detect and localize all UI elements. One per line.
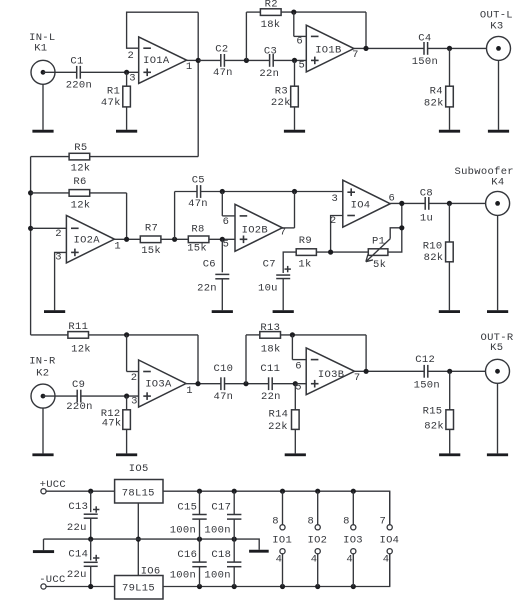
- resistor R6: [31, 176, 127, 211]
- ground: [488, 130, 509, 133]
- capacitor C4: [412, 32, 438, 67]
- ground: [116, 130, 137, 133]
- svg-text:6: 6: [296, 35, 303, 47]
- ground: [32, 130, 53, 133]
- resistor R15: [423, 371, 454, 453]
- wire: [272, 383, 306, 385]
- svg-text:C14: C14: [68, 549, 88, 561]
- svg-text:C6: C6: [203, 258, 216, 270]
- op-amp IO1A: [127, 37, 192, 85]
- svg-text:IO4: IO4: [351, 200, 371, 212]
- junction: [290, 332, 295, 337]
- wire: [198, 59, 221, 61]
- svg-text:C5: C5: [192, 175, 205, 187]
- svg-text:22k: 22k: [268, 421, 288, 433]
- ground: [273, 310, 294, 313]
- svg-text:3: 3: [55, 252, 62, 264]
- svg-text:12k: 12k: [71, 199, 91, 211]
- svg-text:100n: 100n: [170, 525, 196, 537]
- wire: [163, 554, 390, 587]
- wire: [497, 216, 499, 311]
- junction: [136, 537, 141, 542]
- resistor R12: [101, 396, 131, 453]
- junction: [364, 369, 369, 374]
- svg-text:47n: 47n: [213, 67, 233, 79]
- junction: [292, 189, 297, 194]
- resistor R7: [140, 222, 188, 256]
- svg-text:6: 6: [223, 216, 230, 228]
- svg-text:4: 4: [311, 553, 318, 565]
- junction: [232, 584, 237, 589]
- wire: [31, 227, 67, 229]
- svg-text:Subwoofer: Subwoofer: [454, 166, 513, 178]
- resistor R9: [296, 235, 368, 270]
- svg-text:12k: 12k: [71, 163, 91, 175]
- svg-text:22u: 22u: [67, 569, 87, 581]
- svg-text:8: 8: [272, 516, 279, 528]
- svg-text:12k: 12k: [71, 344, 91, 356]
- junction: [172, 237, 177, 242]
- wire: [282, 192, 294, 228]
- wire: [428, 370, 498, 372]
- resistor R3: [271, 60, 298, 129]
- ground: [33, 550, 54, 553]
- svg-text:79L15: 79L15: [122, 582, 155, 594]
- resistor R8: [187, 224, 235, 255]
- resistor R13: [246, 322, 366, 384]
- svg-text:220n: 220n: [66, 80, 92, 92]
- junction: [447, 369, 452, 374]
- svg-text:R10: R10: [423, 240, 443, 252]
- svg-text:18k: 18k: [261, 19, 281, 31]
- svg-text:C17: C17: [211, 502, 231, 514]
- svg-text:6: 6: [295, 361, 302, 373]
- wire: [294, 12, 307, 36]
- junction: [197, 537, 202, 542]
- svg-text:IO2: IO2: [307, 534, 327, 546]
- wire: [127, 12, 199, 48]
- ground: [487, 453, 508, 456]
- capacitor C12: [414, 354, 440, 392]
- wire: [42, 85, 44, 130]
- wire: [365, 335, 367, 371]
- junction: [244, 58, 249, 63]
- svg-text:22k: 22k: [271, 97, 291, 109]
- junction: [124, 70, 129, 75]
- svg-text:18k: 18k: [261, 344, 281, 356]
- svg-text:IN-R: IN-R: [29, 356, 56, 368]
- svg-text:47n: 47n: [213, 391, 233, 403]
- regulator IO6 79L15: [115, 565, 163, 599]
- capacitor C18: [204, 539, 241, 586]
- wire: [80, 71, 138, 73]
- svg-text:4: 4: [383, 553, 390, 565]
- wire: [43, 395, 77, 397]
- svg-text:R1: R1: [107, 85, 120, 97]
- wire: [114, 238, 140, 240]
- ground: [439, 310, 460, 313]
- wire: [187, 12, 199, 156]
- junction: [197, 584, 202, 589]
- svg-text:OUT-L: OUT-L: [480, 9, 513, 21]
- resistor R14: [268, 384, 299, 454]
- connector K1 IN-L: [29, 32, 55, 84]
- svg-text:22u: 22u: [67, 522, 87, 534]
- wire: [497, 384, 499, 454]
- wire: [46, 586, 115, 588]
- svg-text:22n: 22n: [259, 68, 279, 80]
- connector K3 OUT-L: [480, 9, 513, 60]
- wire: [137, 503, 139, 576]
- ground: [284, 130, 305, 133]
- svg-text:82k: 82k: [424, 420, 444, 432]
- svg-text:R4: R4: [430, 86, 443, 98]
- capacitor C13: [67, 491, 100, 539]
- capacitor C3: [259, 45, 279, 80]
- svg-text:R14: R14: [268, 408, 288, 420]
- junction: [124, 237, 129, 242]
- svg-text:C4: C4: [418, 32, 431, 44]
- wire: [43, 539, 45, 550]
- svg-text:R9: R9: [299, 235, 312, 247]
- wire: [222, 192, 235, 216]
- resistor R10: [423, 203, 454, 310]
- wire: [55, 252, 67, 310]
- svg-text:10u: 10u: [258, 283, 278, 295]
- capacitor C9: [66, 379, 92, 413]
- capacitor C7: [258, 252, 296, 310]
- IC power pins IO2: [307, 491, 327, 586]
- svg-text:IO3: IO3: [343, 534, 363, 546]
- svg-text:15k: 15k: [187, 243, 207, 255]
- svg-text:220n: 220n: [66, 401, 92, 413]
- ground: [439, 453, 460, 456]
- connector K5 OUT-R: [480, 332, 513, 383]
- svg-text:5: 5: [223, 238, 230, 250]
- junction: [328, 250, 333, 255]
- svg-text:C2: C2: [215, 43, 228, 55]
- junction: [447, 46, 452, 51]
- svg-text:82k: 82k: [424, 98, 444, 110]
- op-amp IO3B: [295, 348, 360, 395]
- junction: [88, 537, 93, 542]
- svg-text:C18: C18: [211, 549, 231, 561]
- wire: [44, 539, 260, 550]
- junction: [447, 201, 452, 206]
- svg-text:C11: C11: [260, 363, 280, 375]
- ground: [44, 310, 65, 313]
- svg-text:IO5: IO5: [129, 463, 149, 475]
- svg-text:K4: K4: [491, 176, 504, 188]
- svg-text:100n: 100n: [204, 570, 230, 582]
- capacitor C8: [420, 187, 433, 224]
- svg-text:IO3A: IO3A: [145, 379, 172, 391]
- junction: [280, 489, 285, 494]
- capacitor C10: [213, 363, 233, 403]
- svg-text:4: 4: [346, 553, 353, 565]
- resistor R5: [31, 142, 199, 175]
- resistor R1: [101, 72, 131, 130]
- ground: [32, 453, 53, 456]
- op-amp IO2B: [223, 204, 287, 251]
- svg-text:K5: K5: [490, 342, 503, 354]
- potentiometer P1: [366, 203, 402, 271]
- svg-text:5: 5: [298, 59, 305, 71]
- svg-text:IO4: IO4: [379, 534, 399, 546]
- junction: [88, 584, 93, 589]
- connector K4 Subwoofer: [454, 166, 513, 215]
- wire: [127, 335, 139, 372]
- svg-text:7: 7: [354, 372, 361, 384]
- wire: [126, 193, 128, 239]
- junction: [220, 237, 225, 242]
- wire: [163, 491, 390, 524]
- wire: [30, 157, 32, 335]
- svg-text:2: 2: [131, 372, 138, 384]
- svg-text:R5: R5: [74, 142, 87, 154]
- connector K2 IN-R: [29, 356, 56, 409]
- wire: [354, 47, 424, 49]
- wire: [224, 59, 269, 61]
- ground: [249, 550, 269, 553]
- junction: [124, 394, 129, 399]
- junction: [220, 189, 225, 194]
- svg-text:IO1A: IO1A: [143, 55, 170, 67]
- capacitor C15: [170, 491, 207, 539]
- wire: [390, 202, 425, 204]
- svg-text:R3: R3: [275, 85, 288, 97]
- svg-text:IO2B: IO2B: [242, 225, 268, 237]
- svg-text:22n: 22n: [261, 391, 281, 403]
- svg-text:+UCC: +UCC: [40, 479, 66, 491]
- junction: [196, 58, 201, 63]
- svg-text:3: 3: [331, 193, 338, 205]
- wire: [498, 61, 500, 130]
- svg-text:R8: R8: [191, 224, 204, 236]
- regulator IO5 78L15: [115, 463, 163, 503]
- svg-text:5: 5: [295, 382, 302, 394]
- junction: [195, 381, 200, 386]
- svg-text:82k: 82k: [424, 252, 444, 264]
- capacitor C2: [213, 43, 233, 79]
- svg-text:IO6: IO6: [141, 565, 161, 577]
- svg-text:R11: R11: [68, 321, 88, 333]
- wire: [42, 408, 44, 453]
- svg-text:C9: C9: [72, 379, 85, 391]
- svg-text:1: 1: [186, 385, 193, 397]
- svg-text:78L15: 78L15: [122, 487, 155, 499]
- ground: [285, 453, 306, 456]
- ground: [487, 310, 508, 313]
- svg-text:C10: C10: [213, 363, 233, 375]
- junction: [88, 489, 93, 494]
- ground: [116, 453, 137, 456]
- svg-text:C8: C8: [420, 187, 433, 199]
- wire: [273, 59, 306, 61]
- junction: [292, 58, 297, 63]
- svg-text:IO1B: IO1B: [315, 44, 341, 56]
- svg-text:5k: 5k: [373, 259, 386, 271]
- junction: [243, 381, 248, 386]
- svg-text:2: 2: [55, 228, 62, 240]
- op-amp IO3A: [131, 360, 193, 408]
- svg-text:R2: R2: [265, 0, 278, 10]
- capacitor C17: [204, 491, 241, 539]
- capacitor C16: [170, 539, 207, 586]
- junction: [28, 190, 33, 195]
- capacitor C14: [67, 539, 100, 586]
- IC power pins IO1: [272, 491, 292, 586]
- svg-text:P1: P1: [372, 235, 385, 247]
- resistor R11: [31, 321, 198, 356]
- svg-text:C16: C16: [177, 549, 197, 561]
- junction: [351, 584, 356, 589]
- svg-text:C1: C1: [70, 55, 83, 67]
- svg-text:R7: R7: [145, 222, 158, 234]
- ground: [212, 310, 233, 313]
- svg-text:150n: 150n: [414, 379, 440, 391]
- resistor R4: [424, 48, 453, 129]
- IC power pins IO4: [379, 491, 399, 586]
- svg-text:3: 3: [131, 396, 138, 408]
- wire: [355, 370, 425, 372]
- junction: [291, 10, 296, 15]
- terminal +UCC: [40, 479, 66, 494]
- svg-text:47k: 47k: [101, 97, 121, 109]
- junction: [363, 46, 368, 51]
- svg-text:47n: 47n: [188, 198, 208, 210]
- svg-text:R6: R6: [73, 176, 86, 188]
- wire: [292, 335, 306, 360]
- junction: [315, 584, 320, 589]
- svg-text:1: 1: [114, 240, 121, 252]
- wire: [429, 202, 498, 204]
- svg-text:IO2A: IO2A: [73, 235, 100, 247]
- svg-text:8: 8: [343, 516, 350, 528]
- junction: [232, 489, 237, 494]
- op-amp IO1B: [296, 25, 358, 72]
- svg-text:1: 1: [186, 61, 193, 73]
- capacitor C1: [66, 55, 92, 91]
- svg-text:1k: 1k: [298, 259, 311, 271]
- wire: [46, 490, 115, 492]
- svg-text:7: 7: [379, 516, 386, 528]
- svg-text:C15: C15: [177, 502, 197, 514]
- svg-text:1u: 1u: [420, 212, 433, 224]
- svg-text:R13: R13: [260, 322, 280, 334]
- junction: [399, 201, 404, 206]
- junction: [124, 332, 129, 337]
- junction: [293, 381, 298, 386]
- wire: [365, 12, 367, 48]
- svg-text:K3: K3: [490, 21, 503, 33]
- wire: [197, 335, 199, 384]
- junction: [232, 537, 237, 542]
- wire: [225, 383, 269, 385]
- svg-text:-UCC: -UCC: [39, 574, 65, 586]
- IC power pins IO3: [343, 491, 363, 586]
- wire: [331, 216, 343, 253]
- svg-text:C13: C13: [68, 501, 88, 513]
- op-amp IO2A: [55, 215, 121, 263]
- capacitor C11: [260, 363, 280, 403]
- svg-text:3: 3: [129, 72, 136, 84]
- junction: [28, 226, 33, 231]
- svg-text:7: 7: [352, 49, 359, 61]
- junction: [399, 225, 404, 230]
- svg-text:C3: C3: [264, 45, 277, 57]
- svg-text:R15: R15: [423, 406, 443, 418]
- svg-text:K1: K1: [34, 43, 47, 55]
- capacitor C5: [175, 175, 343, 240]
- svg-text:22n: 22n: [197, 283, 217, 295]
- svg-text:100n: 100n: [170, 570, 196, 582]
- wire: [43, 71, 77, 73]
- wire: [428, 47, 499, 49]
- svg-text:15k: 15k: [141, 245, 161, 257]
- svg-text:C7: C7: [263, 258, 276, 270]
- svg-text:K2: K2: [36, 367, 49, 379]
- junction: [280, 584, 285, 589]
- resistor R2: [246, 0, 366, 60]
- ground: [439, 130, 460, 133]
- svg-text:IO3B: IO3B: [318, 369, 344, 381]
- svg-text:IO1: IO1: [272, 534, 292, 546]
- svg-text:4: 4: [276, 553, 283, 565]
- svg-text:8: 8: [307, 516, 314, 528]
- svg-text:100n: 100n: [204, 525, 230, 537]
- svg-text:6: 6: [388, 193, 395, 205]
- wire: [81, 395, 139, 397]
- capacitor C6: [197, 239, 229, 310]
- junction: [315, 489, 320, 494]
- op-amp IO4: [330, 180, 395, 227]
- svg-text:2: 2: [127, 50, 134, 62]
- svg-text:C12: C12: [415, 354, 435, 366]
- junction: [351, 489, 356, 494]
- svg-text:47k: 47k: [102, 417, 122, 429]
- wire: [186, 383, 221, 385]
- junction: [197, 489, 202, 494]
- svg-text:150n: 150n: [412, 56, 438, 68]
- terminal -UCC: [39, 574, 65, 589]
